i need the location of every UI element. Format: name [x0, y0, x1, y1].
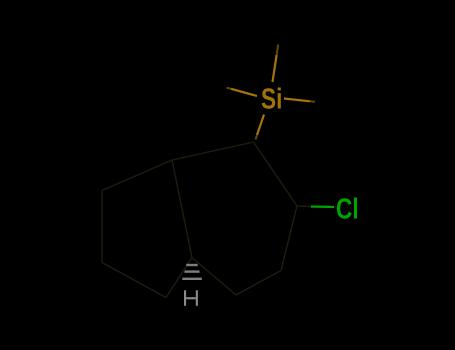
bond Si methyl right	[284, 99, 310, 102]
wire: ring bond V2-V3	[281, 206, 297, 271]
wire: ring bond V1-V2	[254, 142, 298, 206]
bond Si-C ring (olive part)	[257, 115, 264, 136]
label H	[184, 290, 198, 306]
bond Si methyl left	[231, 89, 257, 96]
wire: ring bond V4-V5	[192, 258, 236, 296]
wire: ring bond V6-V1	[172, 142, 254, 160]
stereo hash wedge dash 3	[182, 278, 202, 280]
wire: ring bond V7-V8	[101, 191, 103, 263]
wire: C-Cl bond green half	[311, 205, 334, 208]
bond Si methyl right fade tip	[310, 100, 315, 103]
stereo hash wedge dash 1	[186, 264, 198, 266]
bond Si-C ring fade tip	[256, 135, 258, 140]
wire: ring bond V8-V9	[102, 263, 166, 298]
wire: ring bond V3-V4	[236, 271, 281, 296]
bond Si methyl up fade tip	[277, 45, 279, 56]
svg-text:Cl: Cl	[336, 194, 359, 226]
bond Si methyl left fade tip	[227, 88, 232, 89]
wire: ring fusion bond V5-V6	[172, 160, 192, 258]
wire: ring bond V6-V7	[102, 160, 172, 191]
stereo hash wedge dash 2	[185, 270, 200, 272]
bond Si methyl up	[273, 55, 277, 82]
wire: ring bond V9-V5	[166, 258, 192, 298]
svg-text:Si: Si	[261, 84, 282, 116]
wire: C-Cl bond dark half	[297, 205, 313, 208]
